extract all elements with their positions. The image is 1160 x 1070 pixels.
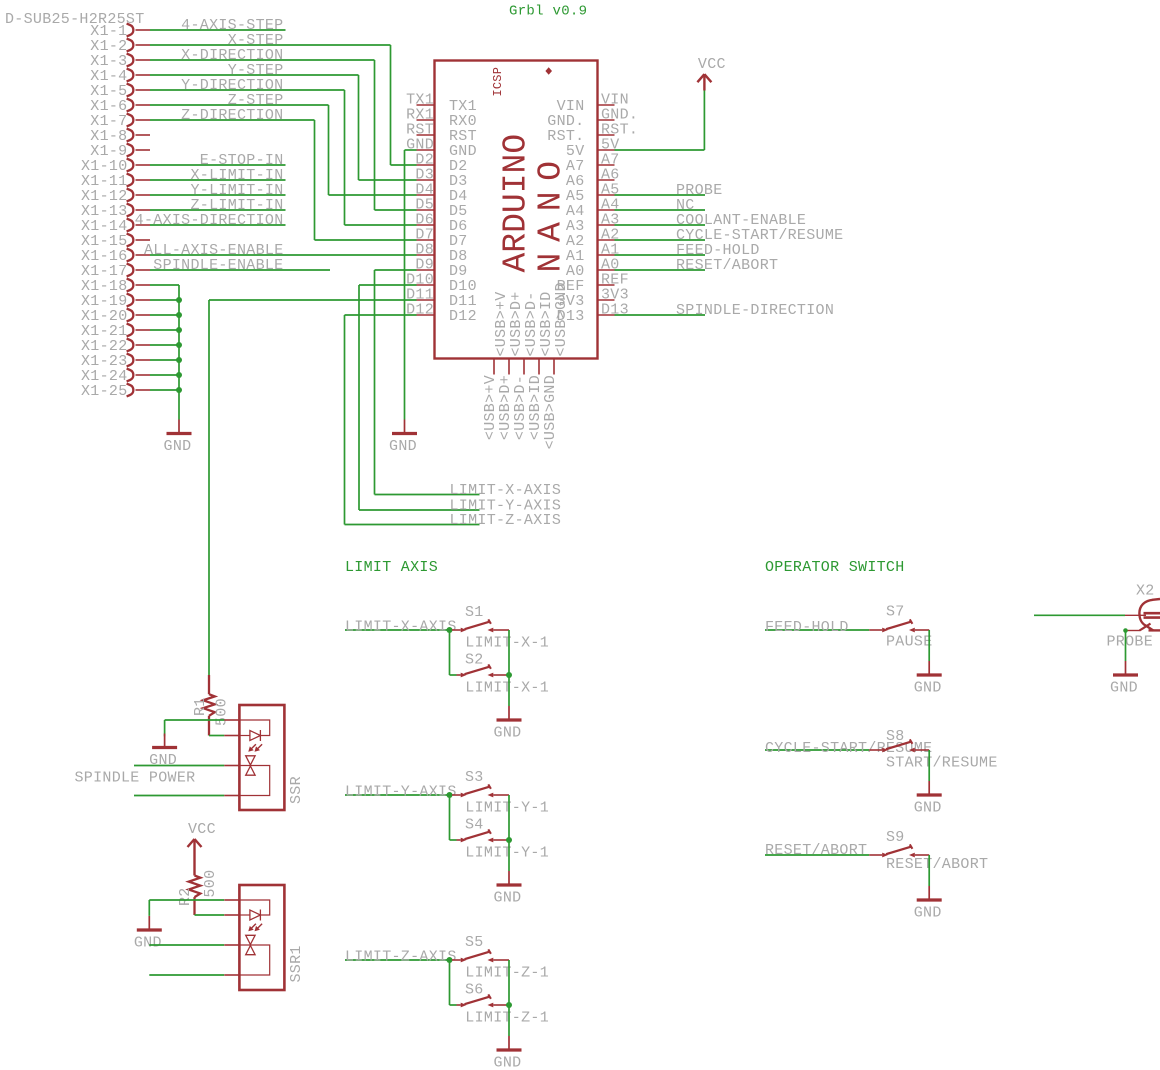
wire stub net at y=180 [150,179,286,181]
wire to X2 jack [1034,614,1125,616]
junction at S4 output [506,837,512,843]
ground LIMIT Z GND [494,1036,522,1070]
svg-text:LIMIT-X-1: LIMIT-X-1 [465,680,549,697]
ground SSR1 GND [134,916,162,952]
wire SPINDLE POWER line 2 [134,795,224,797]
wire from X1 row y=105 to Arduino pin row y=195 [150,104,329,106]
wire X1 GND bus vertical [178,285,180,420]
switch S4 [457,839,461,841]
pin <USB>D- (bottom, x=524) [523,359,525,375]
connector X1 pin X1-8 [90,128,150,145]
wire S9 output to GND [928,855,930,886]
switch S2 [457,674,461,676]
wire stub net at y=165 [150,164,286,166]
connector X1 pin X1-6 [90,98,150,115]
wire S7 output to GND [928,630,930,661]
SSR1 internal LED circuit [239,900,269,921]
wire X1-23 to GND bus [150,359,179,361]
ground S8 GND [914,781,942,817]
svg-text:PAUSE: PAUSE [886,634,933,651]
wire X1-18 to GND bus [150,284,179,286]
pin GND. (right, y=120) [547,107,638,131]
junction X1-20 [176,312,182,318]
svg-text:ICSP: ICSP [491,67,505,97]
ground X1 bus GND [164,420,192,456]
svg-text:R2: R2 [177,887,194,906]
wire SPINDLE-ENABLE [150,269,330,271]
ICSP pin-1 diamond mark [545,67,552,74]
wire from X1 row y=60 to Arduino pin row y=210 [150,59,375,61]
pin RST (left, y=135) [406,122,477,146]
junction X1-19 [176,297,182,303]
relay/optocoupler SSR body [239,705,284,810]
pin A3 (right, y=225) [566,212,620,236]
connector X1 pin X1-9 [90,143,150,160]
wire FEED-HOLD to S7 [765,629,869,631]
svg-text:S4: S4 [465,816,484,833]
svg-text:GND: GND [914,905,942,922]
power VCC symbol R2 VCC [188,821,216,876]
ground LIMIT X GND [494,706,522,742]
wire stub net at y=210 [150,209,286,211]
ground S7 GND [914,661,942,697]
wire RESET/ABORT [615,269,706,271]
connector X1 pin X1-25 [81,383,150,400]
SSR pin stub y=735.5 [224,735,239,737]
wire X1-25 to GND bus [150,389,179,391]
SSR pin stub y=720 [224,719,239,721]
wire CYCLE-START/RESUME to S8 [765,749,869,751]
svg-text:VCC: VCC [188,821,216,838]
connector X1 pin X1-2 [90,38,150,55]
svg-text:4-AXIS-DIRECTION: 4-AXIS-DIRECTION [135,212,284,229]
pin D11 (left, y=300) [406,287,477,311]
svg-text:LIMIT-X-AXIS: LIMIT-X-AXIS [345,619,457,636]
svg-text:D12: D12 [449,308,477,325]
wire/lead R1 bottom [208,716,210,736]
switch S8 [869,749,882,751]
pin D5 (left, y=210) [415,197,467,221]
wire RESET/ABORT to S9 [765,854,869,856]
wire S8 output to GND [928,750,930,781]
wire COOLANT-ENABLE [615,224,706,226]
svg-text:Z-DIRECTION: Z-DIRECTION [181,107,283,124]
switch S7 [869,629,882,631]
svg-text:RESET/ABORT: RESET/ABORT [886,856,988,873]
junction X1-25 [176,387,182,393]
svg-text:X2: X2 [1136,583,1155,600]
svg-text:ARDUINO: ARDUINO [498,134,535,273]
svg-text:LIMIT-Y-AXIS: LIMIT-Y-AXIS [345,784,457,801]
wire R1 to SSR pin2 [209,735,224,737]
junction X2 sleeve [1123,628,1128,633]
svg-text:GND: GND [134,935,162,952]
SSR1 pin stub y=945 [224,944,239,946]
wire SSR1 pin1 to GND corner [149,899,224,901]
junction at S2 output [506,672,512,678]
ground X2 GND [1110,661,1138,697]
wire from X1 row y=90 to Arduino pin row y=225 [150,89,345,91]
svg-text:SPINDLE-ENABLE: SPINDLE-ENABLE [153,257,283,274]
connector X1 pin X1-14 [81,218,150,235]
SSR1 pin stub y=900 [224,899,239,901]
svg-text:SPINDLE-DIRECTION: SPINDLE-DIRECTION [676,302,834,319]
connector X1 pin X1-5 [90,83,150,100]
svg-text:S8: S8 [886,728,905,745]
svg-text:Grbl v0.9: Grbl v0.9 [509,4,587,20]
pin VIN (right, y=105) [557,92,629,116]
svg-text:VCC: VCC [698,56,726,73]
switch S5 [452,959,461,961]
svg-text:GND: GND [914,680,942,697]
pin <USB>+V (bottom, x=494) [493,359,495,375]
pin A0 (right, y=270) [566,257,620,281]
svg-text:S9: S9 [886,829,905,846]
wire S1 output down to GND [508,630,510,706]
svg-text:LIMIT-Y-1: LIMIT-Y-1 [465,800,549,817]
svg-text:500: 500 [214,698,231,726]
SSR1 internal triac circuit [239,935,269,975]
wire GND pin to GND symbol [405,149,417,151]
svg-text:D13: D13 [601,302,629,319]
pin D9 (left, y=270) [415,257,467,281]
svg-text:LIMIT-Z-1: LIMIT-Z-1 [465,965,549,982]
wire stub net at y=225 [150,224,286,226]
wire PROBE [615,194,706,196]
SSR internal LED circuit [239,720,269,741]
connector X1 pin X1-18 [81,278,150,295]
svg-text:X1-25: X1-25 [81,383,128,400]
switch S1 [452,629,461,631]
connector X1 pin X1-22 [81,338,150,355]
connector X1 pin X1-3 [90,53,150,70]
connector X1 pin X1-13 [81,203,150,220]
connector X1 pin X1-20 [81,308,150,325]
wire junction down to S6 [449,960,451,1005]
resistor R1 [208,675,210,694]
wire D11 to R1 [209,299,417,301]
pin D10 (left, y=285) [406,272,477,296]
switch S3 [452,794,461,796]
connector X1 pin X1-11 [81,173,150,190]
ground S9 GND [914,886,942,922]
svg-text:GND: GND [914,800,942,817]
svg-text:PROBE: PROBE [1107,634,1154,651]
wire from X1 row y=75 to Arduino pin row y=180 [150,74,359,76]
svg-text:NANO: NANO [532,150,569,272]
wire X1-24 to GND bus [150,374,179,376]
svg-text:D12: D12 [406,302,434,319]
pin RX0 (left, y=120) [406,107,477,131]
wire X2 sleeve to GND [1125,631,1127,662]
connector X1 pin X1-24 [81,368,150,385]
SSR internal triac circuit [239,756,269,796]
svg-text:GND: GND [149,752,177,769]
svg-text:LIMIT-Y-1: LIMIT-Y-1 [465,845,549,862]
pin GND (left, y=150) [406,137,477,161]
junction at S3 input [447,792,453,798]
connector X1 pin X1-10 [81,158,150,175]
pin D6 (left, y=225) [415,212,467,236]
connector X1 pin X1-19 [81,293,150,310]
junction X1-21 [176,327,182,333]
pin REF (right, y=285) [557,272,629,296]
wire X1-21 to GND bus [150,329,179,331]
svg-text:GND: GND [494,725,522,742]
svg-text:S6: S6 [465,981,484,998]
wire junction down to S4 [449,795,451,840]
pin D3 (left, y=180) [415,167,467,191]
wire X1-22 to GND bus [150,344,179,346]
connector X1 pin X1-7 [90,113,150,130]
wire S3 output down to GND [508,795,510,871]
wire CYCLE-START/RESUME [615,239,706,241]
wire SPINDLE POWER line 1 [134,765,224,767]
switch S6 [457,1004,461,1006]
SSR1 pin stub y=915 [224,914,239,916]
svg-text:START/RESUME: START/RESUME [886,755,998,772]
svg-text:LIMIT-X-1: LIMIT-X-1 [465,635,549,652]
pin D7 (left, y=240) [415,227,467,251]
svg-text:LIMIT-Z-1: LIMIT-Z-1 [465,1010,549,1027]
junction X1-24 [176,372,182,378]
wire LIMIT-Y-AXIS to S3 [345,794,450,796]
wire LIMIT-Z-AXIS to S5 [345,959,450,961]
wire from X1 row y=120 to Arduino pin row y=240 [150,119,315,121]
connector X1 pin X1-17 [81,263,150,280]
wire stub net at y=195 [150,194,286,196]
pin <USB>ID (bottom, x=539) [538,359,540,375]
wire S5 output down to GND [508,960,510,1036]
svg-text:RESET/ABORT: RESET/ABORT [765,842,867,859]
IC U1 ARDUINO NANO body [435,61,598,359]
wire 5V to VCC [615,149,705,151]
connector X2 jack symbol [1125,599,1160,631]
svg-text:GND: GND [494,890,522,907]
svg-text:OPERATOR SWITCH: OPERATOR SWITCH [765,559,905,576]
wire SSR1 pin4 [149,974,224,976]
wire NC [615,209,706,211]
svg-text:RESET/ABORT: RESET/ABORT [676,257,778,274]
svg-text:SPINDLE POWER: SPINDLE POWER [75,770,196,787]
svg-text:LIMIT-Z-AXIS: LIMIT-Z-AXIS [345,949,457,966]
wire SSR pin1 to GND corner [165,719,225,721]
svg-text:SSR: SSR [288,776,305,804]
wire from X1 row y=45 to Arduino pin row y=165 [150,44,391,46]
pin A7 (right, y=165) [566,152,620,176]
svg-text:GND: GND [164,438,192,455]
junction at S6 output [506,1002,512,1008]
wire X1-19 to GND bus [150,299,179,301]
power VCC symbol top VCC [697,56,725,90]
connector X1 pin X1-23 [81,353,150,370]
svg-text:GND: GND [494,1055,522,1070]
svg-text:R1: R1 [192,697,209,716]
svg-text:<USB>GND: <USB>GND [553,282,570,356]
pin A1 (right, y=255) [566,242,620,266]
connector X1 pin X1-21 [81,323,150,340]
resistor R2 [189,876,201,898]
wire SSR1 pin3 [149,944,224,946]
junction X1-22 [176,342,182,348]
pin D2 (left, y=165) [415,152,467,176]
junction at S1 input [447,627,453,633]
wire LIMIT-X-AXIS to S1 [345,629,450,631]
svg-text:S2: S2 [465,651,484,668]
wire/lead R2 bottom [193,897,195,915]
pin <USB>D+ (bottom, x=509) [508,359,510,375]
SSR pin stub y=765.5 [224,765,239,767]
pin 5V (right, y=150) [566,137,620,161]
wire D12 to LIMIT-Z-AXIS [345,314,417,316]
svg-text:FEED-HOLD: FEED-HOLD [765,619,849,636]
pin D8 (left, y=255) [415,242,467,266]
ground SSR GND [149,734,177,770]
svg-text:GND: GND [1110,680,1138,697]
relay/optocoupler SSR1 body [239,885,284,990]
svg-text:S3: S3 [465,769,484,786]
svg-text:S5: S5 [465,934,484,951]
pin A5 (right, y=195) [566,182,620,206]
svg-text:LIMIT AXIS: LIMIT AXIS [345,559,438,576]
SSR pin stub y=795.5 [224,795,239,797]
pin A2 (right, y=240) [566,227,620,251]
wire 4-AXIS-STEP X1-1 [150,29,286,31]
connector X1 pin X1-15 [81,233,150,250]
svg-text:LIMIT-X-AXIS: LIMIT-X-AXIS [450,482,562,499]
SSR1 pin stub y=975 [224,974,239,976]
pin TX1 (left, y=105) [406,92,477,116]
wire D9 to LIMIT-X-AXIS [375,269,417,271]
wire X1-20 to GND bus [150,314,179,316]
svg-text:<USB>GND: <USB>GND [542,375,559,449]
wire junction down to S2 [449,630,451,675]
wire SPINDLE-DIRECTION [615,314,706,316]
svg-text:SSR1: SSR1 [288,945,305,982]
connector X1 pin X1-12 [81,188,150,205]
connector X1 pin X1-16 [81,248,150,265]
junction X1-23 [176,357,182,363]
wire R2 to SSR1 pin2 [195,914,225,916]
pin A6 (right, y=180) [566,167,620,191]
svg-text:S1: S1 [465,604,484,621]
pin 3V3 (right, y=300) [557,287,629,311]
svg-text:500: 500 [202,870,219,898]
connector X1 pin X1-4 [90,68,150,85]
svg-text:LIMIT-Z-AXIS: LIMIT-Z-AXIS [450,512,562,529]
connector X1 pin X1-1 [90,23,150,40]
junction at S5 input [447,957,453,963]
pin D4 (left, y=195) [415,182,467,206]
ground LIMIT Y GND [494,871,522,907]
pin <USB>GND (bottom, x=554) [553,359,555,375]
wire ALL-AXIS-ENABLE to D8 [150,254,417,256]
SSR1 LED emission arrows [248,924,262,932]
pin A4 (right, y=210) [566,197,620,221]
pin D13 (right, y=315) [557,302,629,326]
SSR LED emission arrows [248,744,262,752]
svg-text:GND: GND [389,438,417,455]
pin RST. (right, y=135) [547,122,638,146]
wire FEED-HOLD [615,254,706,256]
wire D10 to LIMIT-Y-AXIS [359,284,417,286]
switch S9 [869,854,882,856]
ground Arduino GND [389,420,417,456]
pin D12 (left, y=315) [406,302,477,326]
svg-text:S7: S7 [886,604,905,621]
